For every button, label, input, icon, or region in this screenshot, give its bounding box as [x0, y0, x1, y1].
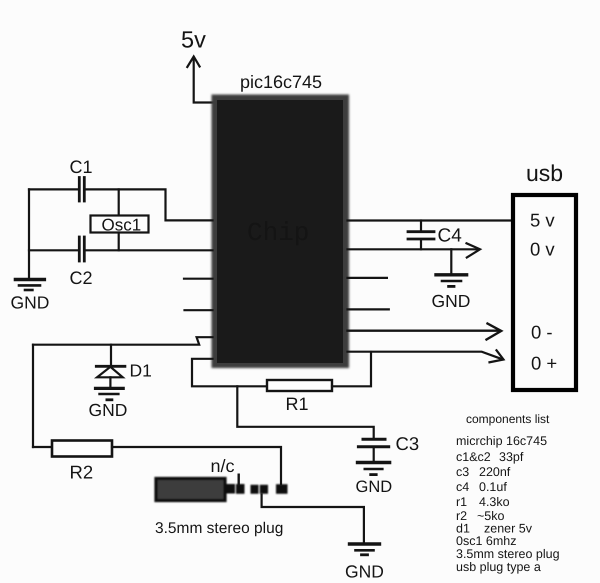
svg-text:C4: C4	[438, 226, 463, 247]
wire chip bottom left to R1	[192, 359, 267, 387]
wire chip right stub pin 1	[348, 277, 387, 279]
chip U1 body	[212, 95, 350, 369]
connector 3.5mm stereo plug body	[156, 479, 288, 501]
ground D1	[96, 388, 124, 399]
svg-text:R1: R1	[286, 394, 309, 414]
capacitor C2	[79, 237, 84, 261]
svg-text:c1&c233pf: c1&c233pf	[456, 450, 524, 464]
svg-text:GND: GND	[356, 478, 393, 496]
svg-text:0 -: 0 -	[531, 322, 553, 343]
resistor R2	[52, 441, 112, 457]
wire R2 right to plug tip	[112, 447, 281, 484]
svg-text:C3: C3	[396, 433, 420, 454]
svg-text:3.5mm stereo plug: 3.5mm stereo plug	[155, 520, 283, 537]
components list lines	[456, 434, 560, 574]
svg-text:micrchip 16c745: micrchip 16c745	[456, 434, 547, 448]
svg-text:r14.3ko: r14.3ko	[456, 495, 510, 509]
capacitor C3	[358, 439, 388, 461]
node 5v power arrow	[187, 57, 212, 103]
wire left vertical to ground	[28, 189, 30, 278]
svg-text:pic16c745: pic16c745	[240, 72, 322, 92]
wire junction down to C3	[237, 386, 373, 438]
svg-text:Chip: Chip	[247, 218, 309, 248]
svg-text:GND: GND	[11, 293, 50, 313]
wire chip left stub pin 2	[185, 309, 213, 311]
wire C2 right to chip	[86, 249, 213, 251]
oscillator Osc1 box	[91, 216, 149, 233]
svg-text:0 v: 0 v	[530, 239, 555, 260]
svg-text:usb: usb	[526, 160, 563, 186]
svg-text:Osc1: Osc1	[102, 216, 142, 235]
svg-text:c40.1uf: c40.1uf	[456, 480, 507, 494]
capacitor C4	[408, 221, 434, 250]
wire osc1 bottom stem	[118, 233, 120, 251]
wire plug sleeve to ground	[262, 495, 364, 543]
svg-text:R2: R2	[70, 462, 94, 483]
wire left vertical D1 net down to R2	[32, 345, 34, 447]
wire R2 left	[33, 446, 52, 448]
svg-text:C1: C1	[70, 157, 93, 177]
usb connector box	[513, 195, 576, 390]
svg-text:0 +: 0 +	[531, 353, 557, 374]
svg-text:5 v: 5 v	[530, 210, 555, 231]
svg-text:c3220nf: c3220nf	[456, 465, 511, 479]
wire osc top right to chip	[86, 189, 213, 220]
wire C4 to ground	[450, 249, 452, 273]
svg-text:components list: components list	[466, 412, 550, 426]
wire chip 0v with arrow	[348, 243, 481, 257]
svg-text:GND: GND	[432, 291, 471, 311]
wire R1 right up to 0+ net	[332, 352, 371, 386]
wire osc1 top stem	[118, 189, 120, 215]
ground C3	[358, 463, 390, 475]
resistor R1	[267, 380, 332, 391]
ground C4	[436, 275, 467, 287]
wire chip left stub pin 1	[184, 278, 213, 280]
diode D1	[96, 345, 125, 388]
svg-text:GND: GND	[89, 400, 128, 420]
ground left	[15, 280, 44, 291]
wire chip 0- with arrow	[348, 324, 502, 340]
svg-text:D1: D1	[130, 361, 152, 381]
svg-text:3.5mm stereo plug: 3.5mm stereo plug	[456, 547, 560, 561]
ground bottom	[350, 544, 380, 555]
wire chip right stub pin 2	[348, 308, 389, 310]
svg-text:GND: GND	[345, 562, 384, 582]
capacitor C1	[79, 178, 84, 202]
svg-text:usb plug type a: usb plug type a	[456, 560, 541, 574]
wire osc top	[29, 188, 78, 190]
wire chip to usb 5v	[348, 219, 512, 221]
svg-text:0sc1 6mhz: 0sc1 6mhz	[456, 534, 516, 548]
wire chip 0+ with arrow	[348, 350, 504, 362]
svg-text:n/c: n/c	[211, 456, 235, 476]
svg-text:5v: 5v	[181, 27, 206, 53]
wire from D1 net to chip with jog	[33, 337, 213, 345]
svg-text:C2: C2	[70, 268, 93, 288]
connector n/c pin tick	[237, 475, 239, 485]
wire C2 left	[29, 249, 78, 251]
